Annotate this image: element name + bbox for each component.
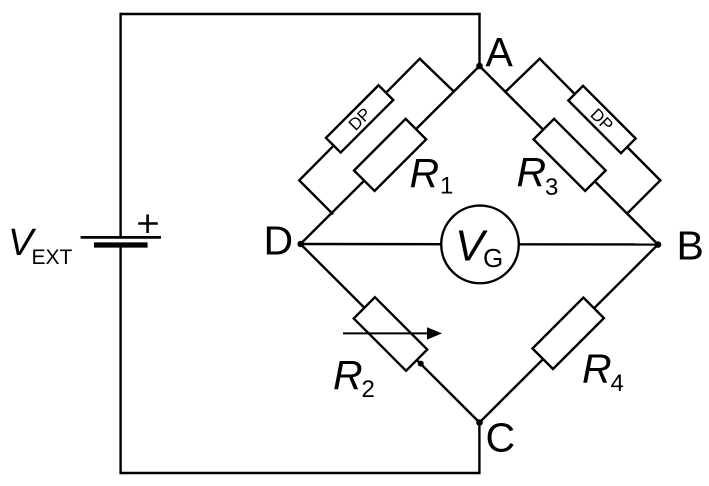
- svg-text:R: R: [333, 352, 363, 398]
- svg-text:2: 2: [362, 376, 375, 403]
- node C dot: [476, 419, 483, 426]
- wire left lower (battery to bottom corner): [119, 247, 121, 475]
- node D dot: [297, 241, 304, 248]
- wire left upper (top corner to battery): [119, 13, 121, 237]
- resistor R4 (body): [532, 298, 603, 369]
- resistor R3 (body): [534, 119, 606, 191]
- svg-text:4: 4: [611, 370, 624, 397]
- svg-text:A: A: [486, 29, 514, 75]
- wire DP branch right: [505, 59, 660, 215]
- svg-text:1: 1: [440, 172, 453, 199]
- svg-text:D: D: [264, 218, 294, 264]
- wire D-B (galvanometer branch): [301, 243, 659, 246]
- battery V_EXT top plate (+): [81, 236, 161, 239]
- wire top horizontal: [120, 13, 481, 15]
- svg-text:R: R: [410, 150, 440, 196]
- resistor R2 wiper arrow: [343, 332, 429, 334]
- svg-text:B: B: [677, 223, 704, 269]
- wire riser to node A: [478, 13, 480, 66]
- battery V_EXT bottom plate (-): [94, 242, 148, 247]
- wire D-C: [301, 244, 480, 423]
- svg-text:EXT: EXT: [32, 246, 73, 269]
- resistor DP (right, across R3): [568, 86, 635, 153]
- svg-text:G: G: [483, 243, 503, 273]
- galvanometer VG (body): [441, 206, 519, 284]
- junction dot below R2: [418, 361, 424, 367]
- svg-text:3: 3: [545, 174, 558, 201]
- svg-text:C: C: [486, 414, 516, 460]
- wire A-D: [301, 66, 480, 244]
- wire DP branch left: [299, 59, 454, 215]
- resistor R1 (body): [354, 119, 426, 191]
- node B dot: [655, 241, 662, 248]
- resistor DP (left, across R1): [326, 85, 393, 152]
- wire C-B: [480, 245, 659, 423]
- resistor R2 variable (body): [354, 297, 428, 371]
- wire riser from bottom to node C: [478, 423, 480, 475]
- wire A-B: [480, 66, 659, 245]
- svg-text:R: R: [582, 345, 612, 391]
- node A dot: [476, 63, 483, 70]
- wire bottom horizontal: [120, 472, 481, 474]
- battery plus sign: [138, 222, 158, 225]
- svg-text:R: R: [517, 149, 547, 195]
